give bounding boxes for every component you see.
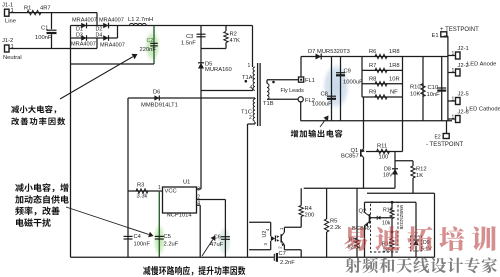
svg-text:MMBD914LT1: MMBD914LT1 [141, 103, 178, 109]
svg-text:1.5nF: 1.5nF [181, 41, 196, 47]
svg-text:10K: 10K [410, 92, 420, 98]
svg-text:LED Cathode: LED Cathode [466, 106, 500, 112]
svg-text:200: 200 [305, 213, 315, 219]
svg-text:R12: R12 [416, 167, 427, 173]
svg-text:T1A: T1A [242, 75, 253, 81]
svg-text:NCP1014: NCP1014 [167, 213, 193, 219]
svg-text:1: 1 [452, 97, 455, 103]
svg-text:1: 1 [452, 115, 455, 121]
svg-text:4R7: 4R7 [40, 6, 51, 12]
svg-text:MRA4007: MRA4007 [72, 18, 97, 24]
svg-text:J2-1: J2-1 [458, 46, 469, 52]
svg-text:R13: R13 [383, 208, 393, 214]
svg-text:R6: R6 [369, 49, 376, 55]
svg-text:1K: 1K [416, 173, 423, 179]
svg-text:3.3k: 3.3k [137, 194, 148, 200]
svg-text:2.2nF: 2.2nF [280, 260, 295, 266]
svg-text:MURA160: MURA160 [205, 67, 232, 73]
svg-text:R8: R8 [369, 76, 376, 82]
svg-text:U1: U1 [183, 180, 190, 186]
svg-text:1000uF: 1000uF [343, 80, 363, 86]
svg-text:1000uF: 1000uF [312, 102, 332, 108]
svg-text:100nF: 100nF [134, 242, 151, 248]
svg-text:R7: R7 [369, 63, 376, 69]
svg-text:2.2k: 2.2k [330, 225, 341, 231]
svg-text:Q2: Q2 [359, 209, 367, 215]
svg-text:1: 1 [452, 51, 455, 57]
svg-text:10nF: 10nF [427, 92, 441, 98]
svg-text:C1: C1 [41, 26, 48, 32]
svg-text:10k: 10k [382, 221, 391, 227]
svg-text:L1 2.7mH: L1 2.7mH [128, 17, 153, 23]
svg-text:R11: R11 [377, 144, 387, 150]
svg-text:C2: C2 [147, 38, 154, 44]
svg-text:1R8: 1R8 [389, 49, 400, 55]
svg-text:J2-5: J2-5 [458, 92, 469, 98]
svg-text:MRA4007: MRA4007 [71, 42, 96, 48]
svg-text:D4: D4 [96, 33, 103, 39]
svg-text:2.2uF: 2.2uF [164, 242, 179, 248]
svg-text:R10: R10 [410, 85, 421, 91]
svg-text:R5: R5 [330, 219, 337, 225]
svg-text:T1B: T1B [263, 101, 274, 107]
svg-text:R9: R9 [369, 90, 376, 96]
svg-text:MRA4007: MRA4007 [100, 43, 125, 49]
svg-text:R3: R3 [137, 183, 144, 189]
svg-text:C5: C5 [164, 234, 171, 240]
svg-text:Line: Line [5, 19, 16, 25]
svg-text:10R: 10R [389, 76, 400, 82]
svg-text:E2: E2 [435, 135, 441, 141]
svg-text:D7 MUR5320T3: D7 MUR5320T3 [308, 49, 350, 55]
svg-text:1: 1 [248, 63, 251, 69]
svg-text:LED Anode: LED Anode [467, 62, 496, 68]
svg-text:47K: 47K [230, 38, 240, 44]
svg-text:100: 100 [379, 155, 389, 161]
svg-text:4: 4 [250, 85, 253, 91]
svg-text:2: 2 [249, 115, 252, 121]
svg-text:D6: D6 [153, 90, 160, 96]
svg-text:47uF: 47uF [210, 242, 224, 248]
svg-text:E1: E1 [432, 33, 439, 39]
svg-text:D3: D3 [76, 33, 83, 39]
svg-text:C8: C8 [321, 92, 328, 98]
svg-text:18V: 18V [383, 172, 393, 178]
svg-text:C10: C10 [428, 85, 439, 91]
svg-text:Neutral: Neutral [3, 55, 22, 61]
svg-text:NF: NF [390, 90, 398, 96]
svg-text:1: 1 [158, 185, 161, 191]
svg-text:- TESTPOINT: - TESTPOINT [426, 142, 464, 148]
svg-text:Fly Leads: Fly Leads [281, 88, 305, 94]
svg-text:R1: R1 [24, 6, 31, 12]
svg-text:R4: R4 [305, 206, 313, 212]
svg-text:C9: C9 [344, 69, 351, 75]
svg-text:D2: D2 [96, 26, 103, 32]
svg-text:220nF: 220nF [140, 47, 157, 53]
svg-text:1R8: 1R8 [389, 63, 400, 69]
svg-text:FL1: FL1 [305, 78, 315, 84]
svg-text:MMBZ5232B: MMBZ5232B [399, 205, 404, 230]
svg-text:1: 1 [452, 68, 455, 74]
svg-text:C7: C7 [279, 251, 286, 257]
svg-text:C3: C3 [186, 34, 193, 40]
svg-text:BC857: BC857 [341, 154, 359, 160]
svg-text:C4: C4 [134, 234, 142, 240]
svg-text:MRA4007: MRA4007 [99, 18, 124, 24]
svg-text:R2: R2 [230, 32, 237, 38]
svg-text:VCC: VCC [165, 189, 177, 195]
svg-text:D1: D1 [76, 26, 83, 32]
svg-text:100nF: 100nF [35, 35, 52, 41]
